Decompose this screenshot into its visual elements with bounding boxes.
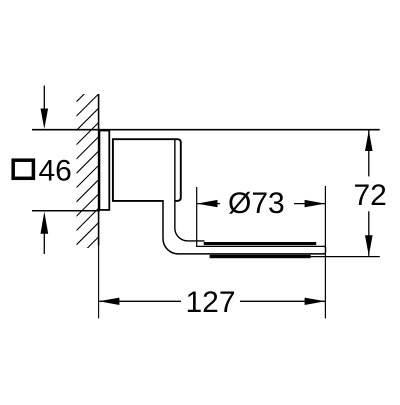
diameter 73 dimension line right segment with arrow — [294, 203, 325, 205]
diameter 73 / 127 right extension line — [324, 186, 326, 318]
72 dimension line upper segment with up arrow — [368, 130, 370, 176]
diameter 73 dimension line left segment with arrow — [197, 203, 220, 205]
72 dimension line lower segment with down arrow — [368, 211, 370, 256]
square symbol for 46 — [13, 160, 33, 178]
wall edge line — [98, 94, 100, 246]
arm outer edge and ring bottom line — [163, 200, 325, 254]
ring front line — [197, 245, 325, 247]
holder arm (white fill over body bottom) — [163, 199, 190, 254]
dish rim top bar — [204, 242, 317, 245]
wall hatching — [71, 80, 99, 265]
dish bottom bar — [210, 255, 311, 258]
svg-text:Ø73: Ø73 — [228, 187, 285, 220]
127 dimension line left segment with arrow — [99, 300, 181, 302]
top reference line — [32, 129, 380, 131]
diameter 73 left extension line — [196, 187, 198, 247]
svg-text:127: 127 — [186, 286, 236, 319]
svg-text:72: 72 — [354, 179, 387, 212]
wall flange plate — [99, 131, 109, 210]
72 bottom reference line — [311, 256, 380, 258]
46 dimension up arrow — [41, 212, 49, 234]
arm inner edge / body front line — [175, 140, 205, 241]
127 left extension line — [98, 246, 100, 319]
127 dimension line right segment with arrow — [240, 300, 325, 302]
46 bottom reference line — [32, 210, 100, 212]
ring right end cap — [323, 246, 325, 254]
square body escutcheon — [113, 139, 181, 201]
46 dimension down arrow — [43, 86, 45, 110]
svg-text:46: 46 — [39, 154, 72, 187]
